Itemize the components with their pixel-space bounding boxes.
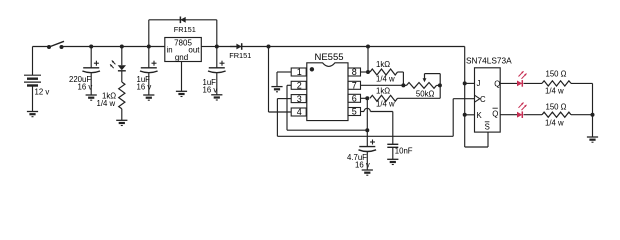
label 150 1/4W (R6) [545, 103, 567, 128]
label SN74LS73A [466, 55, 512, 65]
wire pin 2 to cap net [287, 85, 367, 130]
resistor R6 150 [542, 112, 571, 117]
svg-text:150 Ω: 150 Ω [546, 69, 567, 78]
LED D5 [517, 103, 527, 119]
node J [463, 81, 467, 85]
wire C3 node down [216, 47, 218, 68]
ground (C5) [387, 159, 398, 164]
ground (C3) [211, 95, 222, 100]
wire Q output [501, 82, 518, 84]
svg-text:gnd: gnd [175, 53, 188, 62]
resistor R3 1k [370, 95, 398, 101]
node pin8/R2 [366, 70, 370, 74]
label 220uF 16V [69, 75, 92, 92]
label 1k 1/4W [97, 92, 117, 109]
ground (R1) [116, 120, 127, 125]
label 10nF [395, 146, 413, 155]
labels 7805 in out gnd [167, 38, 201, 62]
wire C2 node to regulator [149, 46, 165, 48]
node 555 vcc [366, 45, 370, 49]
svg-text:1: 1 [297, 67, 302, 77]
wire rail to 555 vcc node [269, 46, 369, 48]
node pin4 feed [267, 45, 271, 49]
label 4.7uF 16V [347, 153, 370, 170]
wire right rail to ground [592, 115, 594, 137]
potentiometer R4 50k [403, 83, 440, 89]
label 1uF 16V (C3) [203, 78, 218, 95]
wire C2 to ground [148, 73, 150, 95]
wire pin 5 with hop [361, 108, 393, 144]
wire node to C1 [90, 47, 92, 68]
wire node to C4 [366, 130, 368, 146]
wire pin 3 clock line [277, 99, 474, 137]
ground (pin1) [271, 87, 282, 92]
wire vcc down J K S tie [465, 47, 488, 148]
switch S1 [47, 41, 64, 49]
wire switch to C1 node [62, 46, 92, 48]
label 1k 1/4W (R3) [376, 86, 395, 108]
wire riser to diode line [148, 20, 150, 47]
label 12V [35, 88, 50, 97]
svg-text:S: S [485, 123, 490, 132]
svg-text:7: 7 [352, 81, 357, 91]
wire R6 to right rail [571, 114, 593, 116]
pin1 marker dot [310, 67, 314, 71]
wire LED node to C2 node [122, 46, 149, 48]
svg-text:16 v: 16 v [78, 82, 93, 91]
wire R3 to pot right [398, 85, 441, 98]
pin 6 box [348, 94, 361, 104]
ground (C4) [362, 170, 373, 175]
svg-text:4: 4 [297, 107, 302, 117]
capacitor C4 4.7uF [359, 140, 377, 152]
svg-text:out: out [188, 45, 200, 54]
svg-text:1kΩ: 1kΩ [376, 86, 390, 95]
bypass diode top wire [149, 19, 217, 21]
node pin6/R3 [365, 96, 369, 100]
svg-text:50kΩ: 50kΩ [416, 89, 435, 98]
svg-text:in: in [167, 45, 173, 54]
labels J C K Q Qbar S [477, 79, 501, 132]
svg-text:150 Ω: 150 Ω [546, 103, 567, 112]
ground (U1) [176, 91, 187, 96]
IC U2 NE555 body [307, 63, 348, 121]
wire D4 to R5 [524, 82, 543, 84]
node D1 [120, 45, 124, 49]
wire U1 out to C3 node [201, 46, 217, 48]
wire rail to U3 corner [368, 46, 465, 48]
svg-text:NE555: NE555 [314, 52, 343, 63]
svg-text:Q: Q [494, 79, 500, 88]
label 1k 1/4W (R2) [376, 60, 395, 83]
svg-text:FR151: FR151 [174, 25, 196, 34]
wire C1 node to LED node [91, 46, 122, 48]
wire R5 to right rail [571, 83, 593, 114]
svg-text:3: 3 [297, 94, 302, 104]
pot wiper [423, 74, 441, 86]
capacitor C1 220uF [82, 61, 100, 73]
ground (right) [587, 137, 598, 142]
node C4 [365, 128, 369, 132]
node K [463, 113, 467, 117]
label 50k [416, 89, 435, 98]
wire C2 node down [148, 47, 150, 68]
node C3 [215, 45, 219, 49]
label FR151 (D2) [174, 25, 196, 34]
label 150 1/4W (R5) [545, 69, 567, 95]
node pot right [438, 83, 442, 87]
wire D5 to R6 [524, 114, 543, 116]
wire C3 node to D3 [217, 46, 237, 48]
svg-text:K: K [477, 111, 483, 120]
wire C4 to ground [366, 152, 368, 170]
svg-text:1/4 w: 1/4 w [97, 99, 116, 108]
resistor R5 150 [542, 81, 571, 86]
capacitor C2 1uF [140, 61, 158, 73]
svg-text:1/4 w: 1/4 w [545, 86, 564, 95]
svg-text:FR151: FR151 [229, 51, 251, 60]
LED D4 [517, 71, 527, 87]
wire C3 to ground [216, 73, 218, 95]
wire U1 gnd pin [181, 62, 183, 92]
pin 1 box [291, 67, 306, 77]
svg-text:6: 6 [352, 94, 357, 104]
svg-text:16 v: 16 v [203, 85, 218, 94]
svg-text:C: C [480, 95, 486, 104]
pin 2 box [291, 81, 306, 91]
wire C1 to ground [90, 73, 92, 95]
ground (battery) [27, 112, 38, 117]
svg-text:8: 8 [352, 67, 357, 77]
node C1 [89, 45, 93, 49]
pin 3 box [291, 94, 306, 104]
pin 8 box [348, 67, 361, 77]
wire pin 6 stub [361, 97, 368, 99]
node pin7/pot [401, 83, 405, 87]
resistor R2 1k [370, 69, 398, 75]
resistor R1 1k [119, 82, 125, 109]
pin 4 box [291, 107, 306, 117]
wire R2 to pin7 node [398, 72, 404, 85]
wire down to pin 4 [269, 47, 292, 113]
pin 7 box [348, 81, 361, 91]
wire C5 to ground [392, 147, 394, 159]
svg-text:1/4 w: 1/4 w [376, 74, 395, 83]
battery B1 12V [24, 47, 41, 112]
label NE555 [314, 52, 343, 63]
label 1uF 16V (C2) [137, 75, 152, 92]
svg-text:5: 5 [352, 107, 357, 117]
svg-text:Q: Q [492, 109, 498, 118]
wire pin 7 [361, 84, 404, 86]
svg-text:1/4 w: 1/4 w [545, 118, 564, 127]
capacitor C5 10nF [387, 144, 398, 147]
label FR151 (D3) [229, 51, 251, 60]
svg-text:10nF: 10nF [395, 146, 413, 155]
diode D3 FR151 series [230, 43, 269, 50]
LED D1 power indicator [110, 61, 126, 71]
node C2 / bypass riser [147, 45, 151, 49]
wire pin 1 to ground [277, 72, 291, 87]
ground (C1) [86, 95, 97, 100]
regulator U1 7805 [165, 38, 202, 62]
wire pin 8 to vcc [361, 47, 369, 73]
wire battery to switch [33, 46, 50, 48]
node right rail [591, 113, 595, 117]
IC U3 SN74LS73A body [475, 68, 501, 132]
capacitor C3 1uF [208, 61, 226, 73]
svg-text:1/4 w: 1/4 w [376, 100, 395, 109]
svg-text:12 v: 12 v [35, 88, 50, 97]
svg-text:2: 2 [297, 81, 302, 91]
ground (C2) [143, 95, 154, 100]
clock input triangle [475, 95, 480, 102]
wire Qbar output [501, 114, 518, 116]
wire D1 to R1 [121, 71, 123, 82]
svg-text:J: J [477, 79, 481, 88]
svg-text:SN74LS73A: SN74LS73A [466, 55, 512, 65]
pin 5 box [348, 107, 361, 117]
wire node to LED D1 [121, 47, 123, 66]
svg-text:1kΩ: 1kΩ [376, 60, 390, 69]
wire pin6 down to cap node [366, 98, 368, 130]
wire riser right to rail node [216, 20, 218, 47]
diode D2 FR151 bypass [180, 17, 185, 24]
wire R1 to ground [121, 109, 123, 121]
